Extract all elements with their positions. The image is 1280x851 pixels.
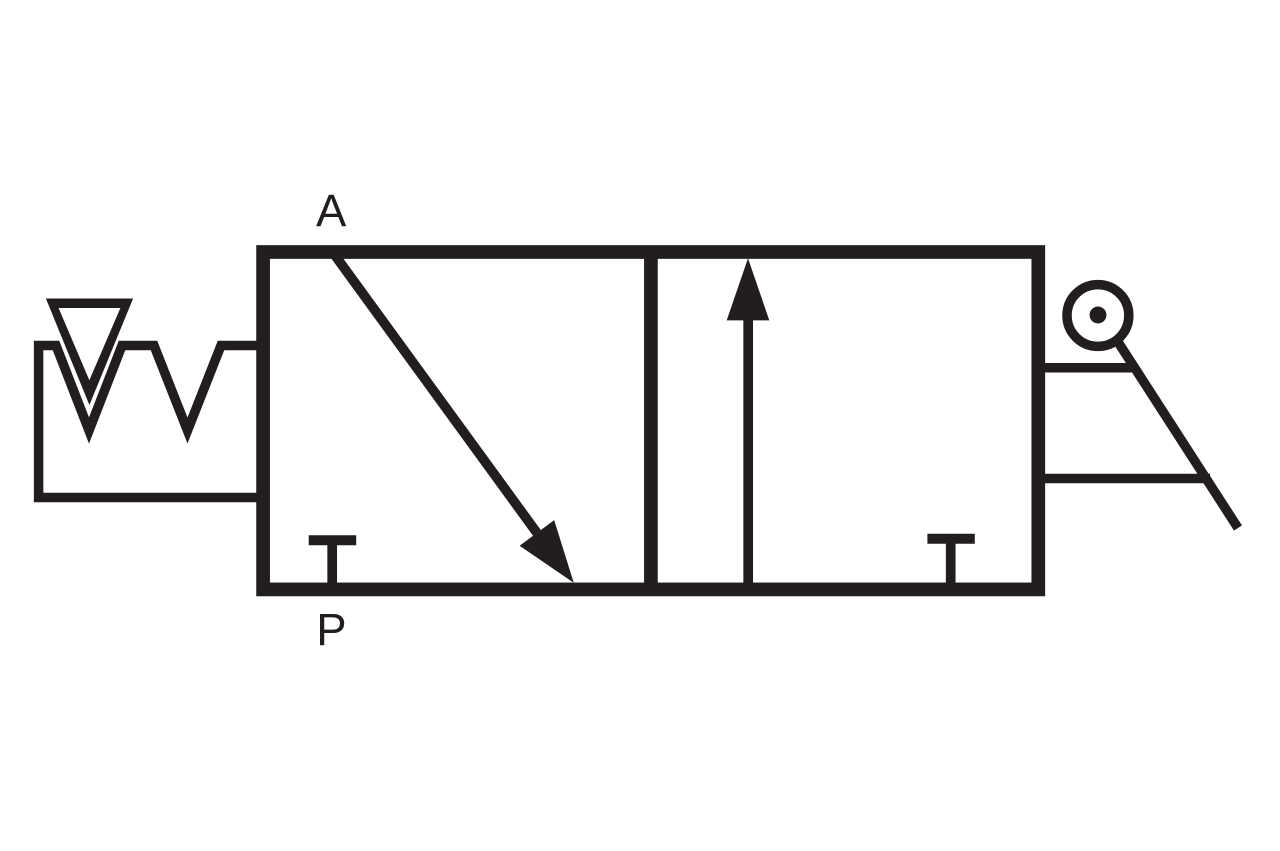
svg-text:P: P xyxy=(316,604,346,655)
flow path A to P (left cell diagonal arrow) xyxy=(334,254,537,533)
roller wheel xyxy=(1067,285,1129,347)
blocked port symbol (right cell T) xyxy=(927,534,974,544)
wire: lever lower mounting stub xyxy=(1040,474,1210,484)
wire: lever upper mounting stub xyxy=(1040,363,1136,373)
lever arm xyxy=(1118,342,1238,528)
roller axle dot xyxy=(1090,307,1107,324)
detent pawl triangle xyxy=(46,299,133,406)
blocked port P symbol (left cell T) xyxy=(309,535,357,545)
position divider xyxy=(644,246,658,595)
flow path arrow (right cell, up) xyxy=(743,316,753,591)
svg-text:A: A xyxy=(316,185,347,236)
detent notch profile xyxy=(39,346,261,498)
valve body frame xyxy=(263,252,1038,589)
